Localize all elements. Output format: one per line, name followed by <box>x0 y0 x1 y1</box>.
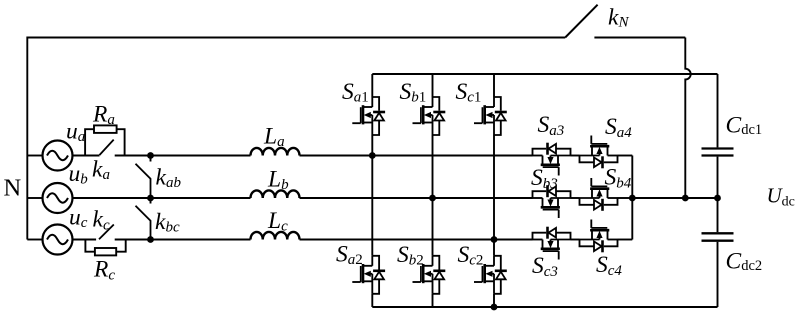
svg-text:Cdc2: Cdc2 <box>726 249 763 275</box>
svg-text:Sc4: Sc4 <box>596 252 622 279</box>
svg-text:ub: ub <box>69 161 89 188</box>
svg-text:Rc: Rc <box>93 257 115 284</box>
svg-text:Lb: Lb <box>267 167 289 194</box>
svg-text:Udc: Udc <box>767 184 795 210</box>
svg-text:N: N <box>4 175 22 202</box>
svg-text:ka: ka <box>92 157 110 184</box>
svg-text:kab: kab <box>156 165 182 192</box>
svg-text:uc: uc <box>69 205 88 232</box>
svg-text:Sa3: Sa3 <box>538 112 565 139</box>
svg-text:Sa2: Sa2 <box>336 242 363 269</box>
svg-text:Sb3: Sb3 <box>531 165 558 192</box>
svg-text:Sb4: Sb4 <box>605 165 632 192</box>
svg-text:Sa4: Sa4 <box>605 114 632 141</box>
svg-text:kbc: kbc <box>155 209 180 236</box>
svg-text:Ra: Ra <box>92 101 115 128</box>
svg-text:La: La <box>263 124 285 151</box>
svg-text:Sc2: Sc2 <box>458 242 484 269</box>
svg-text:kN: kN <box>608 5 629 31</box>
svg-text:kc: kc <box>93 207 110 234</box>
svg-text:Sc3: Sc3 <box>532 253 558 280</box>
svg-text:Sa1: Sa1 <box>342 79 369 106</box>
svg-text:Sc1: Sc1 <box>456 79 482 106</box>
svg-text:Cdc1: Cdc1 <box>726 112 763 138</box>
svg-text:Sb2: Sb2 <box>397 242 424 269</box>
svg-text:ua: ua <box>66 118 85 145</box>
svg-text:Lc: Lc <box>267 208 288 235</box>
svg-text:Sb1: Sb1 <box>400 79 427 106</box>
